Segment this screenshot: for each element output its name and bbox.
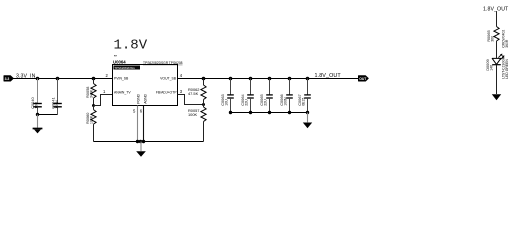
junction bank bus 5 bbox=[306, 111, 309, 114]
svg-text:10U: 10U bbox=[34, 102, 38, 109]
capacitor C0066 bbox=[279, 79, 293, 113]
svg-text:3.3: 3.3 bbox=[5, 77, 10, 81]
svg-text:47.5K: 47.5K bbox=[188, 91, 199, 96]
ground (LED) bbox=[492, 94, 501, 100]
svg-text:1.8V_OUT: 1.8V_OUT bbox=[315, 73, 342, 79]
resistor R0057 bbox=[188, 105, 206, 142]
resistor R0058 bbox=[85, 79, 96, 106]
svg-text:PGND: PGND bbox=[137, 93, 141, 103]
IC U0064 box bbox=[113, 65, 178, 106]
svg-text:FB/ADJ+OTP: FB/ADJ+OTP bbox=[156, 91, 177, 95]
junction input cap C0040 bbox=[36, 77, 40, 81]
junction caps bottom bbox=[36, 113, 39, 116]
ground (cap bank) bbox=[303, 113, 312, 129]
svg-text:U0064: U0064 bbox=[113, 60, 126, 65]
junction divider right bbox=[202, 77, 206, 81]
capacitor C0041 bbox=[50, 79, 62, 115]
wire output rail bbox=[178, 78, 359, 80]
junction bank cap 1 bbox=[229, 77, 233, 81]
LED D0009 bbox=[485, 54, 509, 79]
junction pin6 bus bbox=[142, 140, 145, 143]
wire input rail bbox=[13, 78, 113, 80]
resistor R0062 bbox=[188, 79, 206, 105]
wire caps bottom tie bbox=[38, 114, 58, 116]
wire IC bottom pin 6 bbox=[143, 106, 145, 142]
svg-text:0E15: 0E15 bbox=[301, 98, 305, 106]
capacitor C0040 bbox=[30, 79, 42, 115]
junction bank bus 2 bbox=[249, 111, 252, 114]
IC value bar bbox=[114, 66, 141, 70]
port P2 1.8V_OUT bbox=[359, 76, 369, 81]
svg-text:100K: 100K bbox=[188, 112, 197, 117]
svg-text:348K: 348K bbox=[90, 89, 94, 98]
wire FB pin3 bbox=[178, 95, 204, 105]
svg-text:10U: 10U bbox=[224, 99, 228, 106]
node FB bbox=[202, 103, 205, 106]
wire pin1 EN bbox=[94, 95, 113, 106]
junction pin5 bus bbox=[136, 140, 139, 143]
junction bank cap 2 bbox=[249, 77, 253, 81]
ground (input caps) bbox=[33, 115, 43, 134]
ground (IC) bbox=[136, 142, 146, 157]
resistor R0060 bbox=[85, 106, 96, 142]
svg-text:22U: 22U bbox=[244, 99, 248, 106]
svg-text:TPS62082DSGR TPS6208: TPS62082DSGR TPS6208 bbox=[143, 61, 183, 65]
wire IC bottom pin 5 bbox=[137, 106, 139, 142]
capacitor C0064 bbox=[240, 79, 254, 113]
capacitor C0065 bbox=[259, 79, 273, 113]
svg-text:100K: 100K bbox=[90, 115, 94, 124]
wire ground bus bbox=[94, 141, 204, 143]
junction bank bus 4 bbox=[288, 111, 291, 114]
svg-text:146: 146 bbox=[489, 65, 493, 71]
svg-text:AGND: AGND bbox=[144, 93, 148, 103]
port P1 3.3V_IN bbox=[4, 76, 13, 81]
wire bank bottom bus bbox=[231, 112, 308, 114]
svg-text:PVIN_SB: PVIN_SB bbox=[114, 77, 129, 81]
junction bank bus 3 bbox=[268, 111, 271, 114]
junction bank bus 1 bbox=[229, 111, 232, 114]
svg-text:100N: 100N bbox=[55, 100, 59, 109]
resistor R0065 bbox=[486, 27, 509, 48]
junction bank cap 3 bbox=[268, 77, 272, 81]
svg-text:100N: 100N bbox=[283, 97, 287, 106]
junction bank cap 4 bbox=[288, 77, 292, 81]
svg-text:ANAIN_TV: ANAIN_TV bbox=[114, 91, 131, 95]
svg-text:22U: 22U bbox=[263, 99, 267, 106]
svg-text:VOUT_SB: VOUT_SB bbox=[160, 77, 177, 81]
svg-text:OUT: OUT bbox=[359, 77, 367, 81]
svg-text:LED GREEN: LED GREEN bbox=[505, 59, 509, 79]
svg-text:360R: 360R bbox=[505, 39, 509, 48]
junction gnd bus bbox=[139, 140, 142, 143]
junction bank cap 5 bbox=[306, 77, 310, 81]
capacitor C0067 bbox=[297, 79, 311, 113]
svg-text:1.8V: 1.8V bbox=[114, 38, 148, 54]
wire LED to ground bbox=[496, 65, 498, 94]
wire LED branch top bbox=[496, 12, 498, 27]
node divider left bbox=[92, 104, 95, 107]
junction input cap C0041 bbox=[56, 77, 60, 81]
capacitor C0063 bbox=[220, 79, 234, 113]
wire resistor to LED bbox=[496, 41, 498, 58]
junction divider branch bbox=[92, 77, 96, 81]
svg-text:360: 360 bbox=[490, 36, 494, 42]
svg-text:TPS62082DSG: TPS62082DSG bbox=[114, 66, 135, 70]
